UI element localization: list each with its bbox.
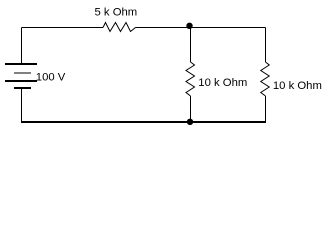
junction dot bottom node B: [187, 119, 193, 125]
svg-text:10 k Ohm: 10 k Ohm: [273, 80, 322, 92]
wire right vertical top: [265, 28, 267, 63]
resistor R2 zigzag 10 k Ohm middle: [186, 62, 195, 96]
svg-text:5 k Ohm: 5 k Ohm: [95, 7, 138, 19]
battery V1 plate short gray: [14, 72, 31, 74]
resistor R1 zigzag 5 k Ohm: [103, 23, 136, 32]
wire middle branch top: [190, 28, 192, 63]
svg-text:100 V: 100 V: [36, 72, 66, 84]
wire left vertical: [21, 28, 23, 64]
battery V1 plate short bottom: [14, 87, 31, 89]
wire middle branch bottom: [190, 96, 192, 121]
junction dot top node A: [186, 23, 192, 29]
battery V1 plate long lower: [5, 80, 37, 82]
wire top-right segment: [136, 27, 266, 29]
svg-text:10 k Ohm: 10 k Ohm: [198, 77, 247, 89]
wire battery bottom stub: [21, 88, 23, 122]
wire bottom 2px: [21, 121, 266, 123]
wire top-left segment: [22, 27, 104, 29]
battery V1 plate long top: [5, 63, 37, 65]
resistor R3 zigzag 10 k Ohm right: [261, 62, 270, 96]
wire right vertical bottom: [265, 96, 267, 122]
